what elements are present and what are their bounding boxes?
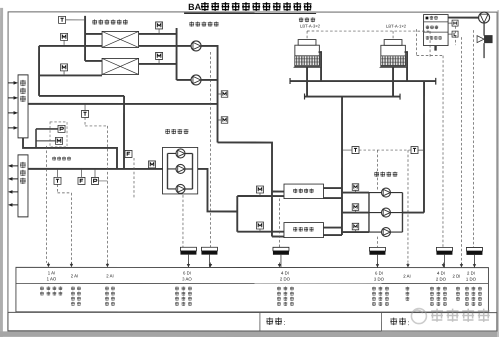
hot water return line to HX1	[39, 45, 102, 47]
label huitu (drawn by)	[266, 318, 273, 326]
cooling tower at x=393	[380, 40, 407, 68]
svg-text:2 AI: 2 AI	[106, 273, 113, 278]
chiller1 condenser stubs	[323, 187, 341, 189]
label: zhengqi re jiaohuanqi	[92, 19, 97, 24]
svg-text:3 AO: 3 AO	[182, 276, 192, 281]
svg-text:6 DI: 6 DI	[375, 271, 383, 276]
tower control dashed bus	[307, 30, 430, 32]
svg-text:LBT-A-1×2: LBT-A-1×2	[386, 24, 407, 29]
chilled pump inlet manifold	[166, 153, 168, 189]
tower outlet drop to both manifolds	[392, 67, 394, 96]
collector main return line B	[28, 103, 217, 105]
control drop from level switches	[455, 26, 457, 45]
valve M on cooling pump line 1	[352, 184, 359, 191]
tower inlet riser from upper manifold	[319, 52, 322, 81]
condenser water riser from towers	[341, 97, 343, 235]
hot water return manifold	[38, 46, 40, 96]
svg-text:4 DI: 4 DI	[437, 271, 445, 276]
HX1 condensate outlet to drain header	[139, 33, 177, 35]
label: lengqueta	[299, 17, 304, 22]
control drop from condenser T sensors	[407, 150, 409, 262]
title block band	[8, 312, 497, 331]
svg-text::: :	[407, 320, 409, 327]
chilled supply tee riser	[236, 196, 238, 232]
svg-text:1 AO: 1 AO	[47, 276, 57, 281]
control wiring from T sensor on return	[84, 117, 86, 126]
DDC terminal bar 3 (chillers)	[273, 247, 289, 251]
chilled pump outlet manifold	[191, 153, 193, 189]
svg-text:1 DO: 1 DO	[466, 277, 477, 282]
condensate drain header	[176, 28, 178, 80]
svg-text:1 AI: 1 AI	[48, 270, 55, 275]
temperature sensor T condenser return	[411, 147, 418, 154]
control drop from cooling pump group	[376, 237, 378, 248]
IO table header divider	[16, 282, 488, 284]
drop line to system supply header	[123, 96, 125, 169]
DDC terminal bar 2 (hot pumps)	[201, 247, 217, 251]
valve actuator M on HX1 condensate	[156, 22, 163, 29]
chilled return main to chillers	[217, 142, 272, 236]
label: lengque shuibeng (cooling water pump)	[374, 172, 379, 177]
chiller unit 2 (lengdong zhuji)	[284, 223, 324, 238]
cooling water pump CWP2	[369, 212, 382, 214]
control drop from chilled pump group	[182, 195, 184, 247]
make-up water tank box	[424, 15, 449, 46]
svg-text:2 DI: 2 DI	[452, 274, 460, 279]
label: xitong gongshui small	[52, 156, 56, 160]
steam supply header pipe	[84, 16, 86, 61]
control drop from chillers	[278, 199, 280, 248]
temperature sensor T on steam header	[59, 16, 66, 23]
chilled return stub to chiller1	[272, 191, 284, 193]
hot circulating pump P1	[191, 41, 201, 51]
bypass branch to pressure sensor	[36, 128, 58, 130]
hot water secondary supply line A	[39, 95, 124, 97]
control drop from make-up pump and valve	[472, 30, 474, 247]
pressure sensor P bypass	[58, 125, 65, 132]
valve actuator M on HX2 water line	[61, 64, 68, 71]
HX1 hot supply to pump P1	[139, 45, 192, 47]
label: re xunhuan shuibeng (hot circulating pump)	[189, 21, 194, 26]
valve M on chiller2 chilled branch	[256, 222, 263, 229]
label shenhe (checked by)	[390, 318, 397, 326]
chilled water pump CP1	[168, 152, 177, 154]
bypass valve M	[56, 137, 63, 144]
photo shadow strip right edge	[497, 10, 499, 337]
chilled supply branch to chiller 1	[237, 195, 284, 197]
chiller unit 1 (lengdong zhuji)	[284, 184, 324, 199]
control drop to DDC from tank group	[442, 56, 444, 247]
water collector box (ji shui qi)	[18, 75, 28, 138]
temperature sensor T condenser supply	[352, 147, 359, 154]
steam branch to HX2	[85, 60, 102, 62]
dashed enclosure around bypass P and M	[50, 122, 67, 147]
collector bottom bypass pipe	[23, 138, 117, 169]
chilled supply branch to chiller 2	[237, 231, 284, 233]
make-up pump	[479, 12, 490, 23]
svg-text:3 DO: 3 DO	[374, 277, 385, 282]
dashed link between condenser T sensors	[359, 149, 411, 151]
control drop col2 from supply sensors	[56, 184, 58, 193]
distributor outlet arrows	[11, 165, 19, 167]
DDC terminal bar 6 (make-up group)	[466, 247, 482, 251]
valve M at chilled pump group inlet	[149, 161, 156, 168]
heat exchanger HX2	[102, 58, 139, 74]
tank dashed enclosure left	[416, 29, 418, 55]
chilled return stub to chiller2	[272, 236, 284, 238]
HX2 condensate outlet to drain header	[139, 63, 177, 65]
watermark text jidian renmai	[431, 309, 490, 322]
title underline	[184, 12, 316, 14]
title block divider 2	[380, 313, 382, 332]
cooling pump group inlet manifold	[368, 193, 370, 232]
valve M on chiller1 chilled branch	[256, 186, 263, 193]
hot circulating pump P2	[191, 75, 201, 85]
cooling water pump CWP1	[369, 192, 382, 194]
flow sensor on drop line	[125, 150, 132, 157]
pipe below make-up valve	[483, 43, 485, 58]
IO table vertical description text columns	[40, 286, 44, 290]
high level switch H	[452, 20, 458, 26]
motorised make-up valve	[477, 36, 484, 43]
cooling return from pumps to tower riser	[402, 212, 424, 214]
system supply header from distributor	[28, 168, 163, 170]
flow meter F on supply header	[78, 177, 85, 184]
make-up pump discharge drop	[483, 23, 485, 35]
cooling return riser to towers	[423, 81, 425, 212]
svg-text:2 DI: 2 DI	[467, 271, 475, 276]
svg-text:BA: BA	[188, 2, 202, 12]
photo shadow strip left edge	[0, 8, 3, 337]
svg-text:2 AI: 2 AI	[403, 274, 410, 279]
low level switch L	[452, 31, 458, 37]
valve M on cooling pump line 3	[352, 223, 359, 230]
status sensor on riser lower	[221, 117, 228, 124]
svg-text:2 DO: 2 DO	[436, 277, 447, 282]
DDC terminal bar 1 (chilled pumps)	[180, 247, 196, 251]
svg-text:LBT-A-3×2: LBT-A-3×2	[300, 24, 321, 29]
photo shadow strip bottom edge	[0, 331, 499, 337]
DDC terminal bar 5 (tower group)	[436, 247, 452, 251]
hot water return line to HX2	[39, 74, 102, 76]
column connector arrowheads at table top	[47, 262, 49, 264]
tower upper manifold (return header)	[290, 80, 436, 82]
pressure sensor P on supply header	[91, 177, 98, 184]
hot circulating pump P2 inlet	[177, 79, 192, 81]
P2 outlet to riser	[201, 79, 218, 81]
cooling tower at x=307	[294, 40, 321, 68]
title block divider 1	[259, 313, 261, 332]
DDC terminal bar 4 (cooling pumps)	[369, 247, 385, 251]
tower outlet drop to both manifolds	[306, 67, 308, 96]
valve actuator M on HX2 condensate	[156, 52, 163, 59]
control drop from hot pumps	[209, 52, 211, 247]
hot supply riser from pumps	[201, 46, 218, 143]
cooling pump feed lines	[342, 192, 369, 194]
svg-text:2 DO: 2 DO	[280, 277, 291, 282]
tower inlet riser from upper manifold	[405, 52, 408, 81]
dashed stub from flow sensor	[133, 158, 135, 199]
cooling pump group outlet manifold	[401, 193, 403, 233]
cooling water pump CWP3	[369, 231, 382, 233]
valve actuator M on HX1 water line	[61, 33, 68, 40]
chilled water pump CP2	[167, 168, 176, 170]
water distributor box (fen shui qi)	[18, 155, 28, 217]
temperature sensor T on supply header	[54, 177, 61, 184]
watermark logo swirl	[411, 309, 426, 324]
heat exchanger HX1	[102, 31, 139, 47]
tower lower manifold (supply header)	[305, 96, 401, 98]
svg-text:2 AI: 2 AI	[71, 273, 78, 278]
control drop col1 from HX sensors	[45, 146, 47, 263]
steam branch to HX1	[85, 33, 102, 35]
svg-text::: :	[283, 320, 285, 327]
svg-text:6 DI: 6 DI	[183, 270, 191, 275]
chilled supply from pump group to tee	[198, 169, 238, 212]
chilled water pump CP3	[167, 188, 176, 190]
chilled pump group frame	[162, 147, 197, 194]
tank drain stub	[434, 46, 436, 51]
status sensor on riser upper	[221, 91, 228, 98]
valve M on cooling pump line 2	[352, 204, 359, 211]
tank dashed enclosure bottom	[417, 55, 444, 57]
label: lengdong shuibeng (chilled water pump)	[165, 129, 170, 134]
temperature sensor T on return line	[82, 110, 89, 117]
svg-text:4 DI: 4 DI	[281, 271, 289, 276]
chiller2 condenser stubs	[323, 227, 342, 229]
IO summary table frame	[16, 267, 489, 312]
collector inlet arrows	[8, 82, 15, 84]
make-up water pipe tank to pump	[448, 17, 479, 19]
